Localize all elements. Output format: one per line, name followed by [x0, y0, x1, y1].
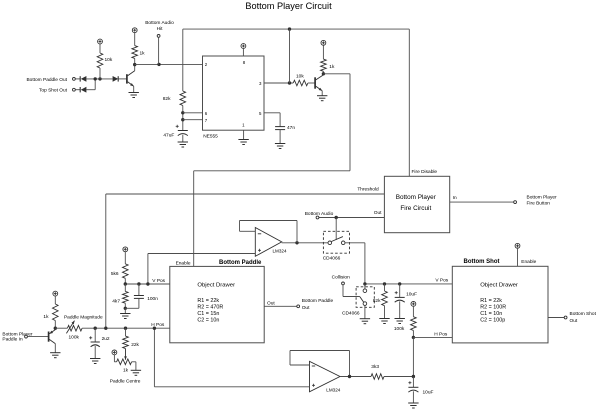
wire — [364, 243, 366, 284]
ground Q2 — [317, 95, 327, 97]
wire — [86, 89, 95, 91]
svg-text:100k: 100k — [68, 335, 79, 341]
ground NE555 pin1 — [243, 130, 245, 139]
transistor Q1 collector — [128, 71, 135, 76]
svg-text:Bottom Paddle: Bottom Paddle — [219, 260, 262, 266]
wire — [342, 285, 344, 297]
switch contact — [328, 241, 332, 245]
svg-text:Bottom Player: Bottom Player — [527, 195, 558, 201]
wire — [82, 327, 170, 329]
ground 4k7 — [120, 313, 130, 315]
resistor 10k base — [293, 80, 308, 86]
junction — [322, 72, 325, 75]
svg-text:NE555: NE555 — [203, 134, 218, 140]
svg-text:C1 = 10n: C1 = 10n — [480, 311, 502, 317]
svg-text:C2 = 10n: C2 = 10n — [197, 317, 219, 323]
junction — [412, 375, 415, 378]
node Top Shot Out — [73, 88, 76, 91]
junction — [54, 327, 57, 330]
transistor Q1 emitter — [128, 82, 134, 86]
resistor 100k shot — [412, 306, 414, 317]
resistor 5k6 — [124, 252, 126, 264]
wire — [125, 307, 139, 309]
label + — [89, 337, 92, 339]
junction — [133, 63, 136, 66]
wire h pos row — [55, 327, 67, 329]
svg-text:Out: Out — [374, 210, 382, 216]
wire — [345, 242, 365, 244]
wire fire disable — [408, 29, 410, 176]
svg-text:Bottom Shot: Bottom Shot — [570, 311, 597, 317]
capacitor 10uF filter — [412, 377, 414, 388]
power V+ — [53, 291, 58, 296]
power V+ — [123, 247, 128, 252]
junction pin6 — [181, 111, 184, 114]
power V+ — [98, 39, 103, 44]
svg-text:3k3: 3k3 — [371, 364, 379, 370]
box Bottom Player Fire Circuit — [384, 176, 449, 232]
svg-text:Bottom Player Circuit: Bottom Player Circuit — [245, 1, 332, 11]
power V+ — [321, 40, 326, 45]
junction — [124, 307, 127, 310]
wire feedback — [349, 351, 351, 377]
node Collision — [342, 282, 345, 285]
wiper arrow — [125, 349, 127, 360]
wire — [86, 78, 112, 80]
switch lever — [331, 237, 343, 242]
switch CD4066 box 2 — [356, 287, 374, 308]
label plus — [258, 249, 261, 251]
potentiometer Paddle Magnitude — [67, 325, 82, 331]
svg-text:1k: 1k — [329, 64, 335, 70]
svg-text:Paddle In: Paddle In — [2, 336, 23, 342]
IC NE555 box — [203, 56, 265, 130]
wire — [279, 130, 281, 144]
ground 10uF filter — [408, 402, 418, 404]
junction — [295, 241, 298, 244]
wire — [384, 376, 413, 378]
ground 47uF — [178, 141, 188, 143]
junction — [98, 77, 101, 80]
wire output — [340, 376, 371, 378]
svg-text:R2 = 100R: R2 = 100R — [480, 305, 506, 311]
svg-text:Bottom Audio: Bottom Audio — [305, 211, 334, 217]
wire — [113, 355, 115, 362]
potentiometer Paddle Centre 1k — [117, 359, 132, 365]
power V+ — [411, 302, 416, 307]
resistor 1k Q2 — [321, 59, 327, 71]
svg-text:10uF: 10uF — [406, 292, 417, 298]
resistor 1k Q1 collector — [132, 46, 138, 59]
wire — [412, 337, 414, 376]
wire pin3 — [264, 82, 293, 84]
wire threshold — [106, 193, 385, 195]
svg-text:82k: 82k — [163, 96, 171, 102]
resistor 1k paddle — [54, 296, 56, 304]
svg-text:Paddle Magnitude: Paddle Magnitude — [64, 314, 103, 320]
switch contact — [341, 241, 345, 245]
wire top feedback — [183, 28, 409, 30]
resistor 82k shot — [384, 284, 386, 291]
resistor 3k3 — [371, 374, 384, 380]
node Bottom Audio Hit — [157, 35, 160, 38]
svg-text:Fire Disable: Fire Disable — [412, 169, 438, 175]
wire pin5 — [264, 112, 280, 114]
pot arrow — [66, 321, 74, 334]
svg-text:100k: 100k — [394, 326, 405, 332]
op-amp U2 LM324 — [310, 361, 341, 392]
junction — [363, 282, 366, 285]
power NE555 pin8 — [241, 44, 246, 49]
svg-text:10k: 10k — [296, 73, 304, 79]
svg-text:Bottom Shot: Bottom Shot — [464, 259, 500, 265]
transistor Q2 emitter — [316, 86, 322, 91]
wire v pos — [365, 283, 452, 285]
svg-text:Paddle Centre: Paddle Centre — [110, 378, 141, 384]
node Bottom Paddle Out — [297, 305, 300, 308]
transistor Q1 base bar — [126, 74, 128, 83]
label minus — [312, 365, 315, 367]
junction — [157, 63, 160, 66]
wire — [399, 301, 401, 318]
switch CD4066 box — [323, 231, 349, 253]
transistor Q2 base bar — [314, 77, 316, 88]
power V+ — [112, 350, 117, 355]
svg-text:V Pos: V Pos — [435, 278, 448, 284]
wire in — [450, 201, 514, 203]
ground Q1 — [129, 92, 139, 94]
svg-text:Bottom Paddle: Bottom Paddle — [302, 298, 334, 304]
wire — [364, 306, 366, 319]
op-amp U1 LM324 — [255, 228, 281, 257]
transistor Q3 emitter — [50, 330, 56, 334]
junction — [335, 216, 338, 219]
node Paddle In — [25, 335, 28, 338]
svg-text:Enable: Enable — [521, 259, 536, 265]
wire noninverting input — [148, 253, 255, 255]
svg-text:5k6: 5k6 — [111, 271, 119, 277]
wire — [349, 74, 351, 171]
diode D1 — [79, 76, 81, 81]
wire to NE555 pin2 — [135, 63, 203, 65]
svg-text:Bottom Audio: Bottom Audio — [145, 20, 174, 26]
wire — [124, 308, 126, 313]
wire out — [548, 317, 564, 319]
wire feedback — [296, 221, 298, 243]
node Fire Button — [514, 201, 517, 204]
svg-text:Out: Out — [570, 318, 578, 324]
wire enable — [517, 248, 519, 266]
svg-text:Object Drawer: Object Drawer — [197, 283, 235, 289]
junction — [94, 327, 97, 330]
svg-text:Fire Circuit: Fire Circuit — [400, 205, 431, 212]
wire — [289, 29, 291, 83]
svg-text:82k: 82k — [373, 298, 381, 304]
svg-text:H Pos: H Pos — [151, 322, 165, 328]
ground 47n — [275, 143, 285, 145]
junction — [124, 282, 127, 285]
svg-text:47uF: 47uF — [163, 133, 174, 139]
ground 2u2 — [90, 358, 100, 360]
node Bottom Paddle Out — [73, 78, 76, 81]
resistor 4k7 — [124, 284, 126, 291]
resistor 22k — [125, 328, 127, 336]
svg-text:Out: Out — [302, 305, 310, 311]
svg-text:C2 = 100p: C2 = 100p — [480, 317, 505, 323]
wire pin6 — [183, 112, 203, 114]
svg-text:10uF: 10uF — [423, 390, 434, 396]
wire — [364, 284, 366, 289]
label + — [408, 382, 411, 384]
svg-text:In: In — [453, 195, 457, 201]
svg-text:10k: 10k — [105, 57, 113, 63]
svg-text:Threshold: Threshold — [357, 187, 379, 193]
wire — [323, 73, 350, 75]
node Bottom Shot Out — [564, 316, 567, 319]
box Bottom Shot Object Drawer — [452, 266, 548, 343]
svg-text:1k: 1k — [43, 314, 49, 320]
wire — [105, 194, 107, 328]
wire — [75, 89, 80, 91]
svg-text:1k: 1k — [140, 51, 146, 57]
power V+ — [132, 28, 137, 33]
switch contact — [363, 302, 367, 306]
wire — [412, 391, 414, 403]
ground Paddle Centre — [131, 369, 141, 371]
capacitor 100n — [138, 284, 140, 295]
wire — [27, 336, 48, 338]
wire noninverting 2 — [154, 386, 309, 388]
wire — [158, 37, 160, 64]
svg-text:H Pos: H Pos — [434, 331, 448, 337]
wire — [132, 361, 136, 363]
svg-text:LM324: LM324 — [273, 248, 287, 253]
capacitor 2u2 — [94, 328, 96, 342]
junction — [104, 327, 107, 330]
junction — [383, 282, 386, 285]
svg-text:C1 = 15n: C1 = 15n — [197, 311, 219, 317]
junction — [124, 327, 127, 330]
svg-text:2u2: 2u2 — [102, 336, 110, 342]
transistor Q2 collector — [316, 75, 324, 80]
junction — [398, 282, 401, 285]
wire — [94, 346, 96, 359]
wire out — [319, 217, 385, 219]
wire h pos shot — [413, 336, 452, 338]
svg-text:47n: 47n — [287, 125, 295, 131]
junction — [348, 375, 351, 378]
wire pin7 — [183, 119, 203, 121]
switch contact — [363, 289, 367, 293]
svg-text:Object Drawer: Object Drawer — [480, 283, 518, 289]
diode D3 — [113, 76, 119, 82]
ground switch 2 — [360, 318, 370, 320]
svg-text:R1 = 22k: R1 = 22k — [480, 298, 502, 304]
diode D2 — [79, 87, 81, 92]
label plus — [312, 384, 315, 386]
resistor 10k pull-up — [99, 68, 101, 79]
label minus — [258, 233, 261, 235]
resistor 82k — [180, 91, 186, 106]
svg-text:22k: 22k — [131, 342, 139, 348]
switch lever — [360, 297, 364, 303]
svg-text:Out: Out — [267, 300, 275, 306]
wire v pos row — [125, 283, 170, 285]
wire — [118, 78, 126, 80]
wire — [194, 170, 350, 172]
svg-text:Bottom Paddle Out: Bottom Paddle Out — [26, 77, 67, 83]
wire — [75, 78, 80, 80]
box Bottom Paddle Object Drawer — [170, 266, 264, 342]
wire out — [264, 305, 297, 307]
capacitor 47n — [275, 126, 285, 128]
svg-text:Collision: Collision — [332, 274, 350, 280]
junction — [412, 336, 415, 339]
wire output — [282, 242, 328, 244]
svg-text:Enable: Enable — [176, 260, 191, 266]
svg-text:CD4066: CD4066 — [342, 310, 360, 316]
wire enable drop — [193, 171, 195, 267]
junction — [288, 27, 291, 30]
svg-text:LM324: LM324 — [326, 387, 340, 392]
wire — [182, 29, 184, 91]
svg-text:1k: 1k — [123, 368, 129, 374]
wire — [182, 135, 184, 142]
svg-text:Hit: Hit — [157, 26, 164, 32]
label + — [176, 125, 179, 127]
svg-text:4k7: 4k7 — [112, 299, 120, 305]
ground Q3 — [50, 352, 60, 354]
wire — [182, 106, 184, 131]
transistor Q3 base bar — [48, 332, 50, 342]
wire control — [335, 218, 337, 240]
ground 82k — [379, 318, 389, 320]
transistor Q3 collector — [49, 339, 55, 343]
svg-text:R2 = 470R: R2 = 470R — [197, 305, 223, 311]
junction — [153, 327, 156, 330]
svg-text:100n: 100n — [147, 296, 158, 302]
svg-text:Top Shot Out: Top Shot Out — [39, 88, 68, 94]
capacitor 47uF — [178, 130, 188, 132]
junction — [94, 77, 97, 80]
node Bottom Audio — [316, 216, 319, 219]
svg-text:CD4066: CD4066 — [323, 255, 341, 261]
junction — [146, 282, 149, 285]
svg-text:R1 = 22k: R1 = 22k — [197, 298, 219, 304]
svg-text:Bottom Player: Bottom Player — [396, 194, 437, 201]
ground 10uF — [395, 318, 405, 320]
junction pin7 — [181, 118, 184, 121]
power enable — [515, 243, 520, 248]
svg-text:Fire Button: Fire Button — [527, 201, 551, 207]
junction — [288, 81, 291, 84]
junction — [137, 282, 140, 285]
capacitor 10uF shot — [399, 284, 401, 297]
wire — [308, 82, 315, 84]
svg-text:V Pos: V Pos — [152, 278, 165, 284]
label + — [395, 292, 398, 294]
